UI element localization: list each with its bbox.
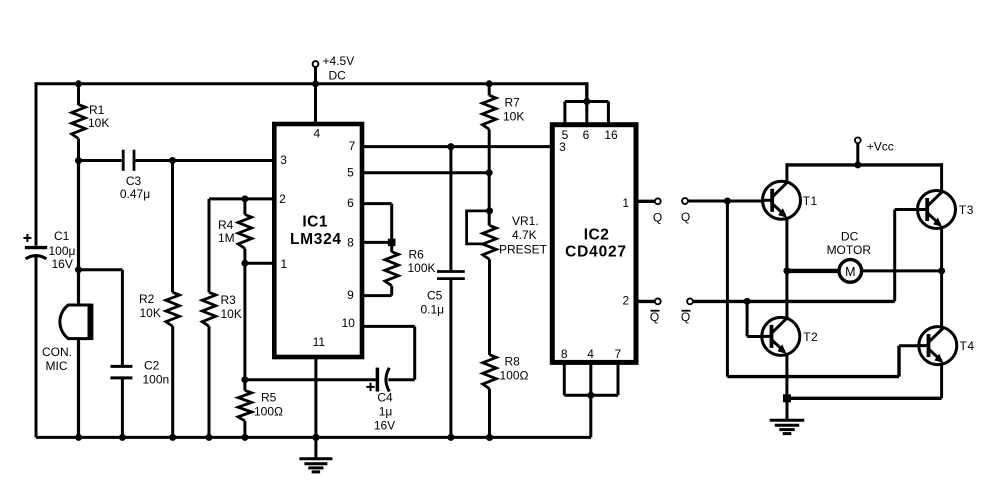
svg-text:10K: 10K [140, 306, 161, 320]
wire Q to T1 base [688, 200, 763, 203]
wire IC2 pin2 stub [636, 300, 655, 303]
svg-text:R2: R2 [139, 292, 155, 306]
wire pin1 node down to R5 [243, 263, 246, 390]
svg-text:CON.: CON. [42, 345, 72, 359]
node pin11 ground [312, 434, 319, 441]
wire Vcc rail [787, 163, 942, 166]
transistor T1 [762, 181, 818, 219]
svg-text:2: 2 [279, 192, 286, 206]
wire motor right [862, 269, 942, 272]
svg-text:0.47μ: 0.47μ [120, 187, 150, 201]
svg-text:8: 8 [561, 347, 568, 361]
capacitor C5 [421, 147, 465, 438]
svg-text:R4: R4 [218, 218, 234, 232]
svg-text:T4: T4 [960, 339, 975, 353]
svg-text:T2: T2 [803, 330, 818, 344]
resistor R3 [202, 199, 242, 438]
wire Qbar branch to T2 base [746, 301, 749, 336]
resistor R6 [385, 242, 436, 295]
svg-text:C3: C3 [126, 174, 142, 188]
motor M [787, 229, 871, 282]
svg-text:4.7K: 4.7K [512, 228, 537, 242]
node motor right [938, 267, 945, 274]
ground symbol left [299, 437, 332, 472]
wire IC1 pin2 to R3 top [209, 197, 273, 200]
svg-text:C1: C1 [54, 229, 70, 243]
wire T3 collector [940, 163, 943, 191]
svg-text:10K: 10K [221, 307, 242, 321]
svg-text:+4.5V: +4.5V [323, 54, 355, 68]
wire IC1 pin8 stub [364, 241, 392, 244]
wire T4 collector [940, 271, 943, 327]
wire bracket to ground rail [589, 395, 592, 437]
terminal Q pin1 [655, 198, 661, 204]
wire top rail corner down to IC2 pin bracket [585, 82, 588, 101]
transistor T3 [917, 191, 974, 229]
svg-text:LM324: LM324 [290, 231, 342, 248]
node R1 top [75, 80, 82, 87]
node R5 top / C4 return [241, 376, 248, 383]
node Q branch [724, 198, 731, 205]
wire Q branch to T4 [727, 375, 899, 378]
svg-text:4: 4 [587, 347, 594, 361]
node R2 bottom rail [169, 434, 176, 441]
svg-text:1: 1 [622, 196, 629, 210]
supply terminal +4.5V DC [313, 54, 355, 84]
wire T1 collector [785, 163, 788, 182]
node pin8/R6 [388, 239, 396, 247]
resistor R2 [139, 161, 180, 438]
node R1 bottom / C3 input [75, 157, 82, 164]
terminal Qbar pin2 [655, 299, 661, 305]
svg-text:Q: Q [681, 310, 690, 324]
node R8 bottom rail [486, 434, 493, 441]
node H-bridge ground [783, 394, 791, 402]
svg-text:DC: DC [841, 229, 859, 243]
svg-text:100n: 100n [143, 373, 170, 387]
svg-text:100Ω: 100Ω [254, 405, 283, 419]
svg-text:10: 10 [342, 316, 356, 330]
node C5 tap [447, 143, 454, 150]
svg-text:4: 4 [314, 127, 321, 141]
svg-text:100K: 100K [408, 261, 436, 275]
resistor R4 [218, 199, 252, 263]
ground symbol right [770, 398, 805, 433]
svg-text:VR1.: VR1. [512, 214, 539, 228]
node mic top [75, 266, 82, 273]
label Qbar input [681, 310, 691, 324]
svg-text:R5: R5 [261, 391, 277, 405]
svg-text:9: 9 [347, 288, 354, 302]
wire IC1 pin7 to IC2 pin3 [364, 145, 551, 148]
svg-text:DC: DC [329, 69, 347, 83]
wire top supply rail [36, 82, 587, 85]
svg-text:3: 3 [280, 153, 287, 167]
transistor T2 [761, 317, 818, 355]
svg-text:Q: Q [653, 210, 662, 224]
capacitor C4 [245, 368, 415, 433]
wire left vertical lower (C1 to bottom rail) [35, 257, 38, 438]
wire mic node to C2 [79, 268, 123, 271]
node C5 bottom rail [447, 434, 454, 441]
svg-text:M: M [845, 265, 855, 279]
wire T1 emitter to motor node [785, 219, 788, 271]
wire R6 bottom to IC1 pin9 [364, 294, 392, 297]
svg-text:T1: T1 [803, 194, 818, 208]
svg-text:+Vcc: +Vcc [867, 140, 894, 154]
wire mic vertical (node to mic) [77, 161, 80, 305]
terminal +Vcc [855, 137, 894, 164]
wire bottom ground rail [36, 436, 591, 439]
svg-text:2: 2 [622, 294, 629, 308]
svg-text:16: 16 [604, 128, 618, 142]
svg-text:C5: C5 [427, 289, 443, 303]
svg-text:5: 5 [347, 166, 354, 180]
wire T2 emitter to ground [785, 355, 788, 399]
wire T2 collector [785, 271, 788, 318]
node motor left [783, 267, 790, 274]
svg-text:T3: T3 [959, 203, 974, 217]
wire IC1 pin6 loop [364, 202, 392, 205]
op-amp IC1 LM324 [274, 124, 362, 357]
resistor R1 [72, 84, 110, 161]
svg-text:PRESET: PRESET [499, 243, 548, 257]
svg-text:R8: R8 [505, 355, 521, 369]
svg-text:IC1: IC1 [302, 214, 328, 231]
wire IC1 pin10 to C4 [364, 325, 415, 328]
svg-text:R7: R7 [505, 96, 521, 110]
svg-text:CD4027: CD4027 [565, 244, 627, 261]
svg-text:6: 6 [347, 196, 354, 210]
svg-text:10K: 10K [88, 116, 109, 130]
wire IC2 pin1 stub [636, 200, 655, 203]
svg-text:C4: C4 [377, 391, 393, 405]
svg-text:1: 1 [280, 257, 287, 271]
terminal Qbar input [687, 299, 693, 305]
microphone CON.MIC [42, 304, 91, 438]
resistor R5 [238, 390, 283, 437]
node R4 top [241, 195, 248, 202]
capacitor C1 [23, 229, 75, 271]
node C3 output [169, 157, 176, 164]
svg-text:0.1μ: 0.1μ [421, 303, 445, 317]
svg-text:Q: Q [681, 210, 690, 224]
node C2 bottom rail [119, 434, 126, 441]
wire C3 node to IC1 pin3 [173, 159, 273, 162]
svg-text:7: 7 [615, 347, 622, 361]
node Vcc [854, 161, 861, 168]
preset VR1 [467, 173, 548, 355]
wire pin1 node to IC1 [245, 262, 273, 265]
svg-text:1M: 1M [218, 231, 235, 245]
svg-text:R3: R3 [221, 293, 237, 307]
resistor R8 [483, 355, 529, 438]
capacitor C3 [79, 150, 173, 201]
svg-text:MOTOR: MOTOR [827, 243, 872, 257]
svg-text:C2: C2 [144, 359, 160, 373]
svg-text:R1: R1 [89, 103, 105, 117]
node Qbar branch [744, 298, 751, 305]
svg-text:8: 8 [347, 235, 354, 249]
svg-text:3: 3 [559, 140, 566, 154]
node R5 bottom rail [241, 434, 248, 441]
svg-text:16V: 16V [374, 419, 395, 433]
wire IC1 pin5 [364, 171, 489, 174]
label Qbar pin2 [650, 310, 660, 324]
wire supply to IC1 pin4 [314, 84, 317, 124]
wire IC2 bottom bracket pins 8-4-7 [564, 362, 618, 395]
svg-text:16V: 16V [52, 257, 73, 271]
capacitor C2 [110, 359, 169, 438]
node mic bottom rail [75, 434, 82, 441]
svg-text:11: 11 [313, 335, 326, 349]
wire T3 emitter [940, 228, 943, 271]
svg-text:100μ: 100μ [49, 244, 76, 258]
node R7 top rail [486, 80, 493, 87]
node R3 bottom rail [206, 434, 213, 441]
svg-text:IC2: IC2 [584, 227, 610, 244]
wire T4 emitter to ground [940, 364, 943, 398]
node R4 bottom / IC1 pin1 [241, 260, 248, 267]
svg-text:7: 7 [349, 139, 356, 153]
svg-text:6: 6 [583, 128, 590, 142]
flip-flop IC2 CD4027 [552, 125, 636, 363]
node pin5/R7/VR1 [486, 169, 493, 176]
node supply on rail [312, 80, 319, 87]
svg-text:100Ω: 100Ω [500, 369, 529, 383]
wire left vertical upper (to C1) [35, 82, 38, 245]
svg-text:MIC: MIC [46, 359, 68, 373]
transistor T4 [918, 327, 974, 365]
svg-text:10K: 10K [503, 110, 524, 124]
wire Q branch down [726, 201, 729, 377]
wire IC2 top bracket pins 5-6-16 [565, 102, 609, 125]
resistor R7 [482, 84, 524, 173]
svg-text:R6: R6 [409, 248, 425, 262]
wire IC1 pin11 to ground rail [314, 357, 317, 437]
node IC2 top bracket [583, 98, 590, 105]
svg-text:1μ: 1μ [379, 405, 393, 419]
terminal Q input [682, 198, 688, 204]
wire Qbar to T3 [693, 300, 895, 303]
svg-text:Q: Q [650, 310, 659, 324]
node IC2 bottom bracket [587, 392, 594, 399]
